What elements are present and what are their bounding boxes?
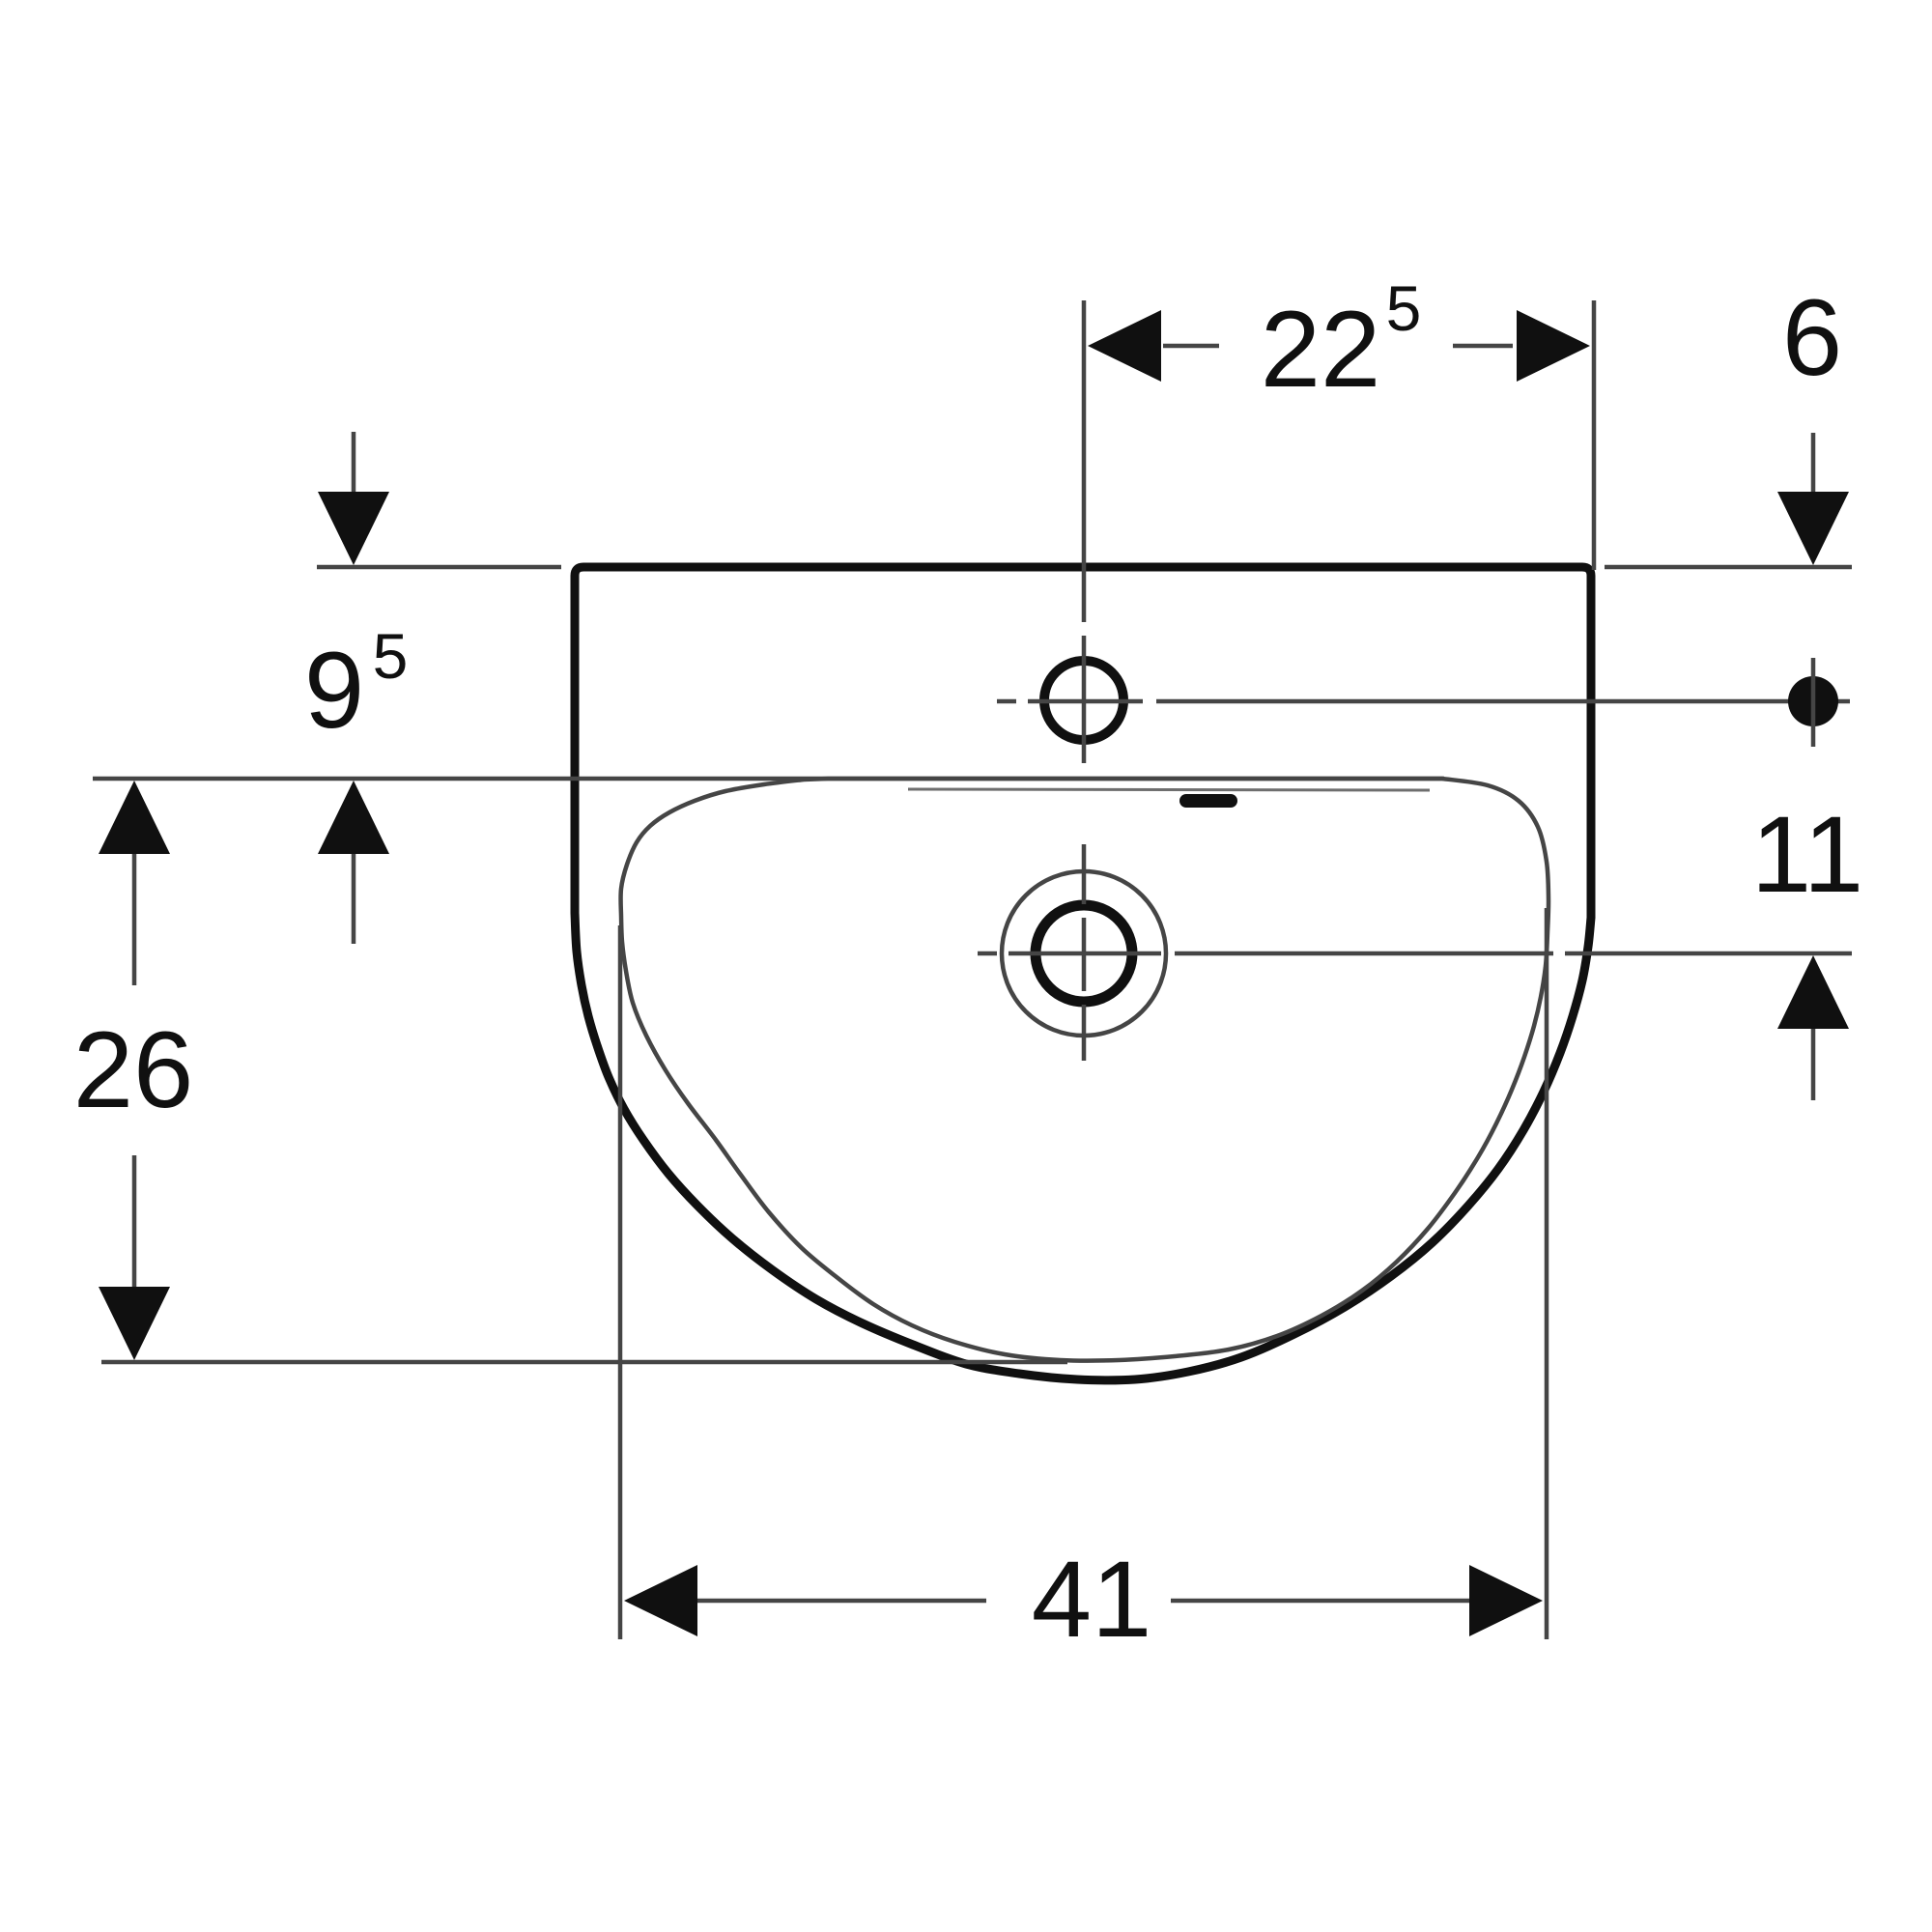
bowl top reference line (9.5 / 26) bbox=[93, 777, 1444, 781]
overflow slot bbox=[1179, 794, 1237, 808]
drain horizontal centerline dash bbox=[978, 952, 997, 956]
drain horizontal centerline bbox=[1009, 952, 1161, 956]
inner rim second edge (faint) bbox=[908, 789, 1430, 790]
dot vertical crosshair bbox=[1811, 658, 1816, 747]
11 arrow stem bbox=[1811, 1029, 1816, 1100]
top edge extension line right bbox=[1605, 565, 1852, 570]
6 arrow stem bbox=[1811, 433, 1816, 492]
22.5 right extension line bbox=[1592, 300, 1597, 570]
9.5 bottom arrow stem bbox=[352, 854, 356, 944]
arrow 41 left bbox=[624, 1565, 697, 1636]
faucet horizontal centerline dash bbox=[997, 699, 1016, 704]
arrow 9.5 up bbox=[318, 781, 389, 854]
41 dimension line left segment bbox=[697, 1599, 986, 1604]
drain centerline extended right bbox=[1175, 952, 1553, 956]
svg-text:41: 41 bbox=[1032, 1539, 1152, 1660]
41 dimension line right segment bbox=[1171, 1599, 1480, 1604]
washbasin outer outline bbox=[575, 567, 1591, 1380]
svg-text:5: 5 bbox=[1386, 272, 1422, 344]
top edge extension line left bbox=[317, 565, 561, 570]
drain vertical centerline bbox=[1082, 844, 1087, 904]
svg-text:9: 9 bbox=[304, 630, 364, 751]
svg-text:11: 11 bbox=[1751, 794, 1863, 915]
arrow 9.5 down bbox=[318, 492, 389, 565]
faucet horizontal centerline bbox=[1028, 699, 1143, 704]
arrow 26 up bbox=[99, 781, 170, 854]
arrow 22.5 right bbox=[1517, 310, 1590, 382]
bottom reference line (26) bbox=[101, 1360, 1067, 1365]
41 left extension line bbox=[618, 925, 623, 1639]
faucet hole centerline extended to dot bbox=[1156, 699, 1850, 704]
washbasin inner bowl outline bbox=[621, 779, 1549, 1361]
arrow 26 down bbox=[99, 1287, 170, 1360]
svg-text:22: 22 bbox=[1261, 289, 1381, 410]
9.5 top arrow stem bbox=[352, 432, 356, 492]
arrow 22.5 left bbox=[1088, 310, 1161, 382]
26 lower stem bbox=[132, 1155, 137, 1287]
41 right extension line bbox=[1545, 908, 1549, 1639]
arrow 11 up bbox=[1777, 955, 1849, 1029]
arrow 41 right bbox=[1469, 1565, 1543, 1636]
drain outer circle bbox=[1002, 871, 1166, 1036]
drain inner circle bbox=[1036, 905, 1132, 1002]
svg-text:5: 5 bbox=[373, 620, 409, 692]
26 upper stem bbox=[132, 854, 137, 985]
faucet vertical centerline / extension line bbox=[1082, 300, 1087, 622]
arrow 6 down bbox=[1777, 492, 1849, 565]
svg-text:26: 26 bbox=[73, 1009, 194, 1130]
dimension line 22.5 left segment bbox=[1163, 344, 1219, 349]
faucet hole bbox=[1044, 661, 1123, 740]
svg-text:6: 6 bbox=[1782, 277, 1842, 398]
dimension line 22.5 right segment bbox=[1453, 344, 1513, 349]
faucet center mark dot bbox=[1788, 676, 1838, 726]
